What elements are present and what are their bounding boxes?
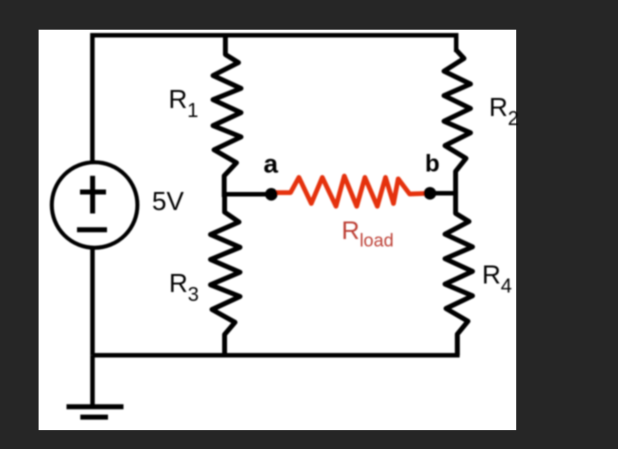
wire: ground stem xyxy=(90,355,95,406)
node a junction dot xyxy=(265,188,278,201)
voltage source V1 xyxy=(52,162,138,248)
resistor R3 xyxy=(211,192,241,355)
wire: node b stub to right branch xyxy=(430,191,456,196)
wire: left branch below source down to bottom rail xyxy=(90,248,95,356)
resistor Rload (red) xyxy=(272,176,429,206)
resistor R2 xyxy=(444,50,471,193)
resistor R1 xyxy=(213,35,241,197)
svg-text:b: b xyxy=(425,150,440,177)
svg-text:a: a xyxy=(264,149,279,179)
resistor R4 xyxy=(445,192,473,355)
node b junction dot xyxy=(424,187,437,200)
wire: top rail from left branch to right branch xyxy=(92,35,456,163)
svg-text:5V: 5V xyxy=(152,186,184,216)
wire: node a stub from middle branch xyxy=(225,192,271,197)
wire: bottom rail xyxy=(93,336,458,355)
ground xyxy=(67,407,124,417)
